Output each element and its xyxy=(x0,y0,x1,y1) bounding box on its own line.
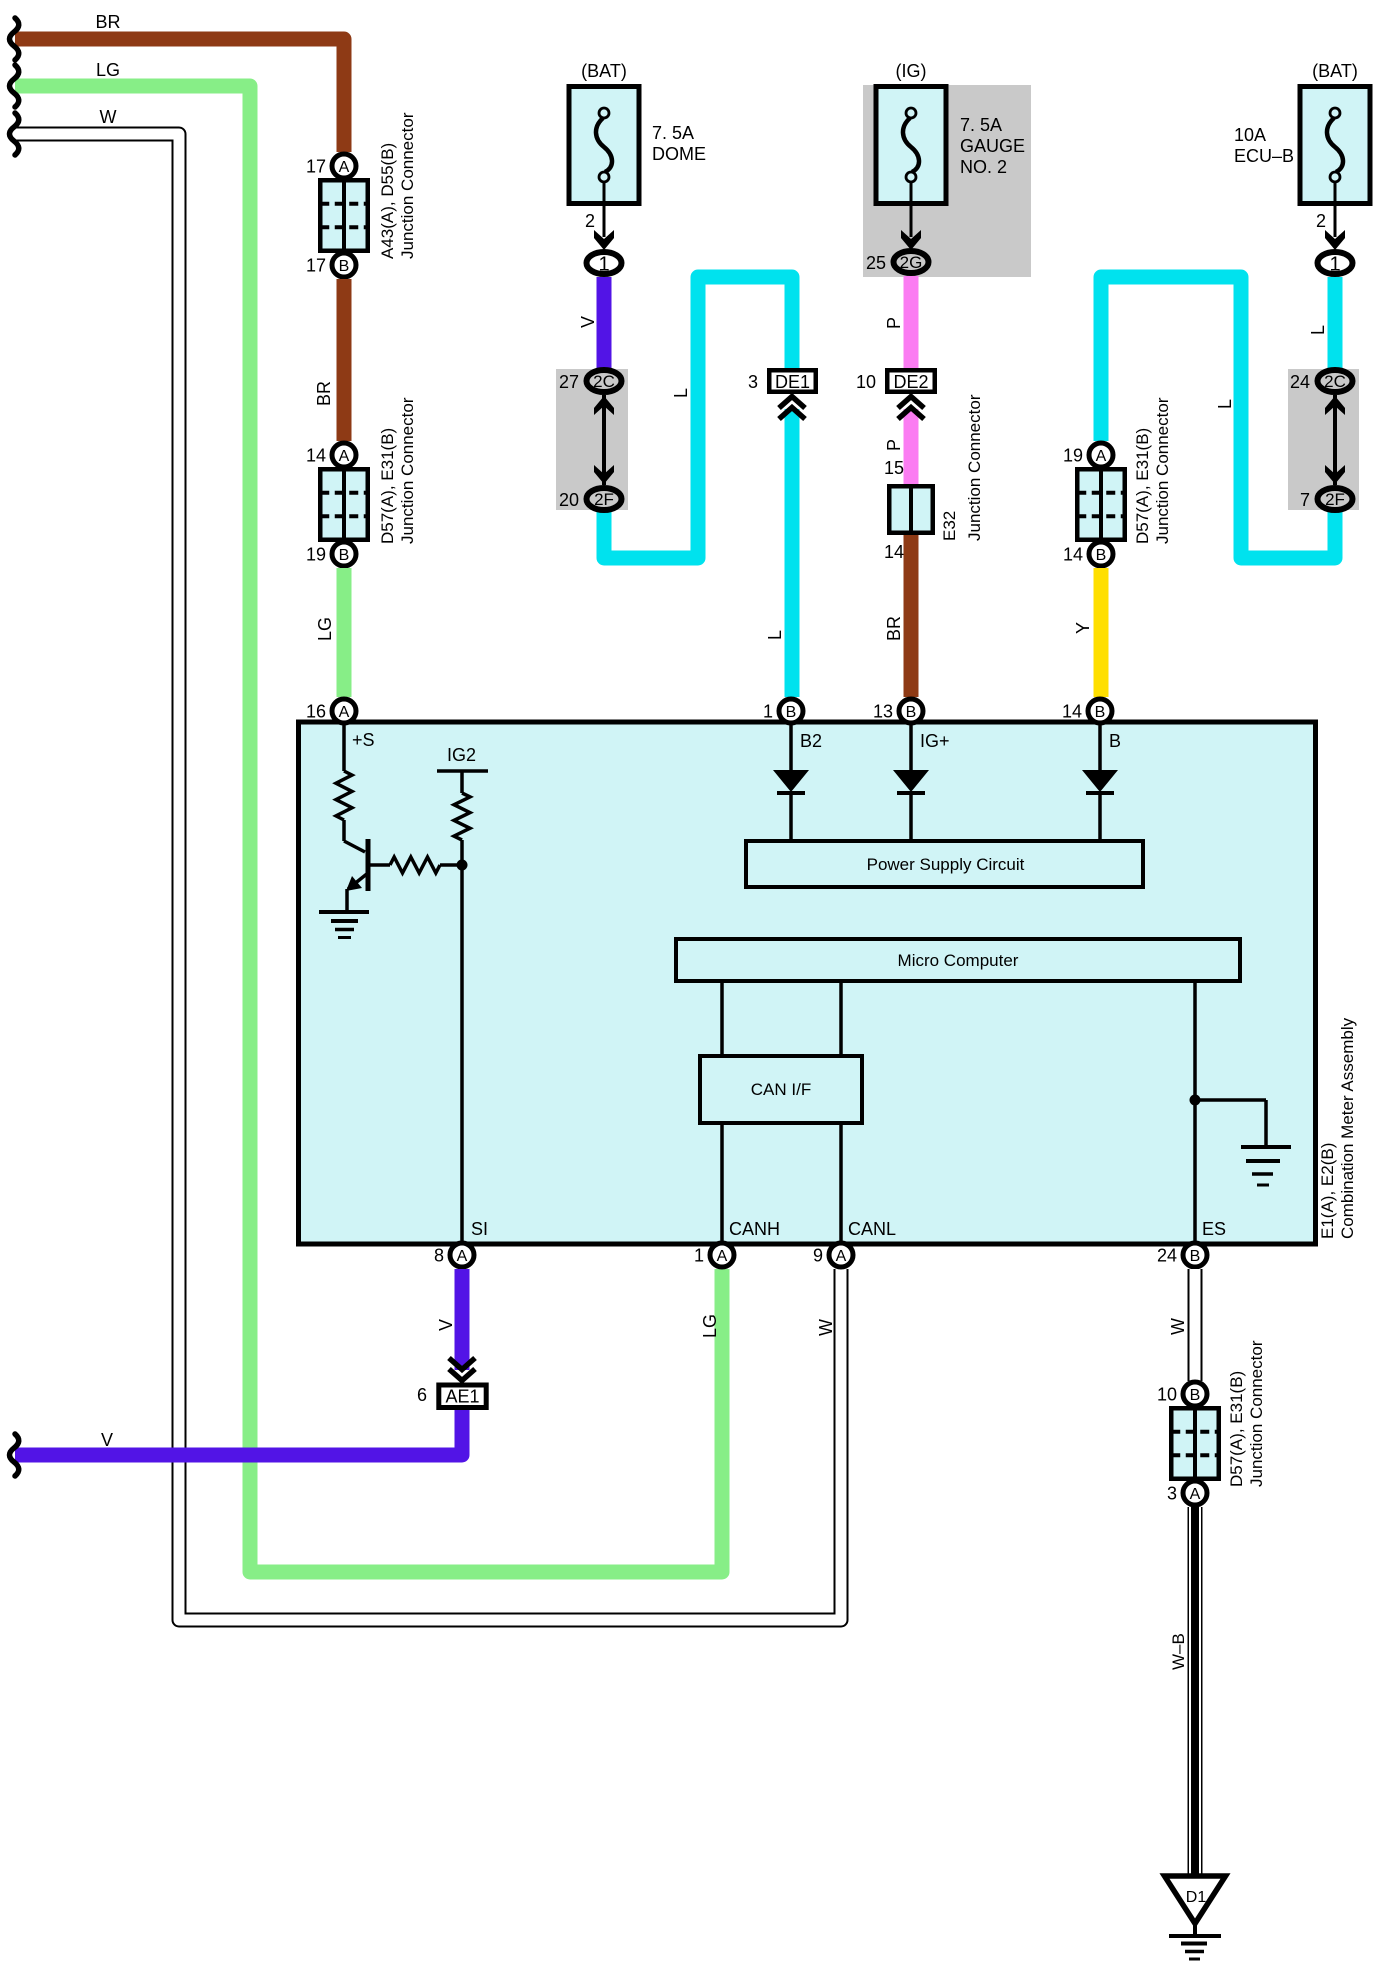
svg-text:25: 25 xyxy=(866,253,886,273)
svg-text:W–B: W–B xyxy=(1169,1633,1188,1670)
fuse 7.5A DOME (BAT) xyxy=(569,61,706,250)
wire CAN I/F to pin CANH xyxy=(722,1125,780,1241)
svg-text:CANL: CANL xyxy=(848,1219,896,1239)
svg-text:A: A xyxy=(1096,448,1107,465)
svg-text:Junction Connector: Junction Connector xyxy=(1153,397,1172,544)
svg-text:1: 1 xyxy=(763,702,773,722)
svg-text:(BAT): (BAT) xyxy=(1312,61,1358,81)
wire W from pin 24 to D57 junction xyxy=(1168,1269,1195,1381)
svg-text:14: 14 xyxy=(1062,702,1082,722)
svg-text:14: 14 xyxy=(884,542,904,562)
svg-text:7: 7 xyxy=(1300,490,1310,510)
svg-text:3: 3 xyxy=(1167,1484,1177,1504)
svg-text:DOME: DOME xyxy=(652,144,706,164)
svg-text:A: A xyxy=(339,448,350,465)
svg-text:10A: 10A xyxy=(1234,125,1266,145)
junction connector A43(A), D55(B) xyxy=(306,112,417,277)
svg-text:Power Supply Circuit: Power Supply Circuit xyxy=(867,855,1025,874)
meter pin 8 A xyxy=(434,1243,474,1267)
svg-text:BR: BR xyxy=(95,12,120,32)
svg-text:A43(A), D55(B): A43(A), D55(B) xyxy=(378,143,397,259)
svg-text:B: B xyxy=(1095,704,1106,721)
svg-text:B: B xyxy=(339,258,350,275)
wire LG to meter pin 16 xyxy=(315,568,344,697)
svg-text:(BAT): (BAT) xyxy=(581,61,627,81)
junction connector D57(A), E31(B) upper-right xyxy=(1063,397,1172,566)
svg-text:24: 24 xyxy=(1157,1246,1177,1266)
wire L from DE1 to meter pin 1B xyxy=(765,397,805,698)
svg-text:LG: LG xyxy=(96,60,120,80)
wire L from D57 junction to 2F (right) xyxy=(1101,277,1335,558)
svg-text:Y: Y xyxy=(1073,622,1093,634)
svg-text:ES: ES xyxy=(1202,1219,1226,1239)
svg-text:ECU–B: ECU–B xyxy=(1234,146,1294,166)
svg-text:V: V xyxy=(101,1430,113,1450)
meter pin 1 A xyxy=(694,1243,734,1267)
wire LG label (CANH) xyxy=(700,1314,720,1338)
svg-text:D57(A), E31(B): D57(A), E31(B) xyxy=(378,428,397,544)
node 2G xyxy=(866,251,929,273)
svg-text:13: 13 xyxy=(873,702,893,722)
svg-text:8: 8 xyxy=(434,1246,444,1266)
svg-text:L: L xyxy=(765,630,785,640)
svg-text:Micro Computer: Micro Computer xyxy=(898,951,1019,970)
wire micro computer to CAN I/F (CANL) xyxy=(839,983,843,1054)
svg-text:27: 27 xyxy=(559,372,579,392)
svg-text:E32: E32 xyxy=(940,511,959,541)
diode IG+ xyxy=(893,725,929,839)
svg-text:B: B xyxy=(1109,731,1121,751)
svg-text:14: 14 xyxy=(1063,545,1083,565)
svg-text:B: B xyxy=(786,704,797,721)
wire W feed from harness (white, outlined) xyxy=(10,107,842,1620)
svg-text:V: V xyxy=(436,1319,456,1331)
wire W-B to ground D1 xyxy=(1169,1507,1200,1874)
wire Y to meter pin 14B xyxy=(1073,568,1101,697)
svg-text:24: 24 xyxy=(1290,372,1310,392)
ground point D1 xyxy=(1165,1876,1226,1934)
svg-text:P: P xyxy=(884,439,904,451)
svg-text:2F: 2F xyxy=(1325,490,1345,509)
node SI junction xyxy=(457,860,489,1242)
svg-text:15: 15 xyxy=(884,458,904,478)
wire P from 2G to DE2 xyxy=(884,276,911,368)
svg-text:17: 17 xyxy=(306,256,326,276)
meter pin 1 B xyxy=(763,699,822,751)
svg-text:L: L xyxy=(1215,399,1235,409)
connector DE2 xyxy=(856,370,935,392)
connector block 2C/2F (left) xyxy=(556,369,628,510)
wire V from pin 8 to AE1 xyxy=(436,1269,475,1381)
svg-text:D57(A), E31(B): D57(A), E31(B) xyxy=(1133,428,1152,544)
fuse 7.5A GAUGE NO.2 (IG) in junction block xyxy=(863,61,1031,277)
svg-text:20: 20 xyxy=(559,490,579,510)
wire ES from micro computer xyxy=(1190,983,1267,1241)
wire CAN I/F to pin CANL xyxy=(841,1125,896,1241)
wire BR from E32 to meter pin 13B xyxy=(884,535,911,697)
meter pin 13 B xyxy=(873,699,950,751)
svg-text:BR: BR xyxy=(314,381,334,406)
svg-text:V: V xyxy=(578,316,598,328)
svg-text:L: L xyxy=(1308,325,1328,335)
wire W label (CANL) xyxy=(816,1319,836,1336)
ground symbol D1 xyxy=(1169,1936,1221,1959)
resistor R1 (+S pull-up) xyxy=(336,725,352,841)
wire micro computer to CAN I/F (CANH) xyxy=(720,983,724,1054)
diode B2 xyxy=(773,725,809,839)
connector AE1 xyxy=(417,1385,486,1408)
node 1 (DOME fuse output) xyxy=(587,252,622,276)
svg-text:LG: LG xyxy=(700,1314,720,1338)
svg-text:IG+: IG+ xyxy=(920,731,950,751)
svg-text:D1: D1 xyxy=(1186,1889,1207,1906)
wire L from fuse ECU-B to 2C xyxy=(1308,277,1335,368)
ground (transistor emitter) xyxy=(319,912,369,938)
junction connector D57(A), E31(B) lower xyxy=(1157,1340,1266,1505)
svg-text:17: 17 xyxy=(306,157,326,177)
wire BR between junction connectors xyxy=(314,279,344,441)
meter pin 9 A xyxy=(813,1243,853,1267)
svg-text:A: A xyxy=(1190,1486,1201,1503)
svg-text:L: L xyxy=(671,388,691,398)
ground (internal ES) xyxy=(1241,1147,1291,1185)
combination meter assembly box xyxy=(299,722,1358,1244)
svg-text:B: B xyxy=(1190,1248,1201,1265)
svg-text:SI: SI xyxy=(471,1219,488,1239)
svg-text:(IG): (IG) xyxy=(896,61,927,81)
svg-text:B: B xyxy=(906,704,917,721)
svg-text:Junction Connector: Junction Connector xyxy=(1247,1340,1266,1487)
svg-text:E1(A), E2(B): E1(A), E2(B) xyxy=(1318,1143,1337,1239)
svg-text:2F: 2F xyxy=(594,490,614,509)
svg-text:Junction Connector: Junction Connector xyxy=(965,394,984,541)
wire BR feed from harness xyxy=(10,12,345,152)
connector DE1 xyxy=(748,370,816,392)
diode B xyxy=(1082,725,1118,839)
power supply circuit block xyxy=(746,841,1143,887)
svg-text:A: A xyxy=(339,159,350,176)
svg-text:GAUGE: GAUGE xyxy=(960,136,1025,156)
svg-text:W: W xyxy=(816,1319,836,1336)
svg-text:CAN I/F: CAN I/F xyxy=(751,1080,811,1099)
meter pin 24 B xyxy=(1157,1243,1207,1267)
connector block 2C/2F (right) xyxy=(1288,369,1359,510)
svg-text:B2: B2 xyxy=(800,731,822,751)
svg-text:BR: BR xyxy=(884,616,904,641)
svg-text:19: 19 xyxy=(1063,446,1083,466)
svg-text:D57(A), E31(B): D57(A), E31(B) xyxy=(1227,1371,1246,1487)
svg-text:IG2: IG2 xyxy=(447,745,476,765)
svg-text:A: A xyxy=(717,1248,728,1265)
wire P from DE2 to E32 xyxy=(884,397,924,485)
svg-text:Junction Connector: Junction Connector xyxy=(398,112,417,259)
svg-text:B: B xyxy=(1190,1387,1201,1404)
svg-text:7. 5A: 7. 5A xyxy=(960,115,1002,135)
fuse 10A ECU-B (BAT) xyxy=(1234,61,1370,250)
svg-text:DE1: DE1 xyxy=(775,372,810,392)
meter pin 16 A xyxy=(306,699,375,750)
svg-text:Combination Meter Assembly: Combination Meter Assembly xyxy=(1338,1017,1357,1239)
svg-text:14: 14 xyxy=(306,446,326,466)
svg-text:1: 1 xyxy=(1329,254,1340,276)
svg-text:2: 2 xyxy=(1316,211,1326,231)
svg-text:W: W xyxy=(1168,1318,1188,1335)
svg-text:1: 1 xyxy=(598,254,609,276)
wire L from 2F to connector DE1 xyxy=(604,277,792,558)
svg-text:7. 5A: 7. 5A xyxy=(652,123,694,143)
svg-text:16: 16 xyxy=(306,702,326,722)
svg-text:+S: +S xyxy=(352,730,375,750)
svg-text:2C: 2C xyxy=(593,372,615,391)
svg-text:W: W xyxy=(100,107,117,127)
svg-text:CANH: CANH xyxy=(729,1219,780,1239)
svg-text:A: A xyxy=(836,1248,847,1265)
svg-text:A: A xyxy=(339,704,350,721)
transistor Q1 xyxy=(344,839,368,911)
junction connector E32 xyxy=(884,394,984,562)
svg-text:NO. 2: NO. 2 xyxy=(960,157,1007,177)
svg-text:AE1: AE1 xyxy=(445,1387,479,1407)
svg-text:Junction Connector: Junction Connector xyxy=(398,397,417,544)
resistor R3 (base) xyxy=(370,857,462,873)
CAN I/F block xyxy=(700,1056,862,1123)
svg-text:P: P xyxy=(884,317,904,329)
svg-text:10: 10 xyxy=(856,372,876,392)
wire V from AE1 to harness xyxy=(10,1410,463,1476)
svg-text:A: A xyxy=(457,1248,468,1265)
meter pin 14 B xyxy=(1062,699,1121,751)
svg-text:LG: LG xyxy=(315,617,335,641)
svg-text:19: 19 xyxy=(306,545,326,565)
svg-text:2C: 2C xyxy=(1324,372,1346,391)
IG2 supply and resistor R2 xyxy=(437,745,488,865)
node 1 (ECU-B fuse output) xyxy=(1318,252,1353,276)
svg-text:B: B xyxy=(339,547,350,564)
micro computer block xyxy=(676,939,1240,981)
wire LG feed from harness xyxy=(10,60,723,1572)
svg-text:DE2: DE2 xyxy=(893,372,928,392)
svg-text:6: 6 xyxy=(417,1385,427,1405)
svg-text:9: 9 xyxy=(813,1246,823,1266)
svg-text:10: 10 xyxy=(1157,1385,1177,1405)
svg-text:B: B xyxy=(1096,547,1107,564)
wire V from fuse DOME xyxy=(578,277,604,368)
svg-text:3: 3 xyxy=(748,372,758,392)
svg-text:1: 1 xyxy=(694,1246,704,1266)
svg-text:2: 2 xyxy=(585,211,595,231)
junction connector D57(A), E31(B) upper-left xyxy=(306,397,417,566)
svg-text:2G: 2G xyxy=(900,253,923,272)
